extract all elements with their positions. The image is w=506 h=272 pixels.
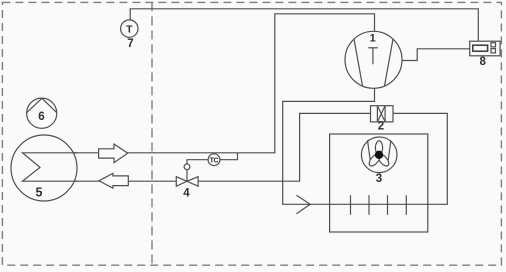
sensor TC on capillary line — [208, 154, 220, 166]
svg-text:T: T — [126, 24, 133, 36]
temperature sensor T7 — [121, 20, 138, 37]
svg-text:5: 5 — [36, 186, 43, 200]
svg-text:2: 2 — [378, 121, 384, 133]
heat exchanger 5 — [11, 135, 77, 201]
wire: suction pipe from HX5 top to compressor 1 — [23, 14, 375, 153]
coil tick 3 — [387, 195, 389, 215]
pump 6 — [27, 98, 57, 128]
wire: sensor T7 signal line to controller 8 — [130, 9, 478, 41]
svg-text:TC: TC — [210, 158, 219, 165]
flow arrow right (supply) — [99, 144, 128, 163]
coil tick 1 — [350, 195, 352, 215]
svg-text:1: 1 — [370, 32, 376, 44]
svg-text:4: 4 — [183, 188, 190, 200]
indoor/outdoor dashed partition line — [151, 2, 153, 265]
valve 4 stem — [186, 170, 188, 182]
svg-text:7: 7 — [127, 38, 133, 50]
coil tick 2 — [368, 195, 370, 215]
svg-text:8: 8 — [479, 56, 486, 68]
fan 3 — [361, 137, 397, 173]
valve 4 actuator head — [184, 164, 190, 170]
svg-text:3: 3 — [376, 173, 382, 185]
compressor 1 — [345, 31, 402, 88]
wire: TC branch drop from suction pipe — [187, 153, 238, 164]
wire: discharge pipe compressor 1 down-left to outdoor coil — [23, 87, 448, 204]
arrowhead into outdoor coil — [297, 195, 311, 214]
flow arrow left (return) — [99, 173, 128, 188]
controller 8 — [470, 41, 500, 56]
valve 4 body — [176, 177, 187, 187]
filter drier 2 — [371, 106, 394, 122]
svg-text:6: 6 — [38, 111, 44, 123]
outdoor unit enclosure — [330, 134, 428, 232]
wire: compressor 1 to controller 8 — [402, 49, 470, 61]
coil tick 4 — [405, 195, 407, 215]
